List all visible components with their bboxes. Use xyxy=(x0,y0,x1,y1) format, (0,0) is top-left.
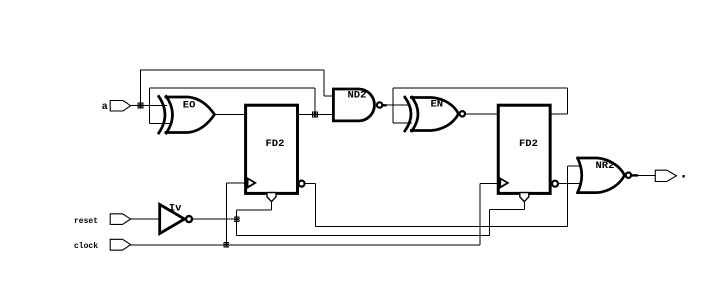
output pin xyxy=(655,170,676,181)
wire reset pin to Iv xyxy=(131,218,159,220)
wire RD1 riser xyxy=(271,201,273,210)
label Iv xyxy=(169,203,182,215)
flip-flop U2 FD2 box xyxy=(498,105,550,193)
svg-text:EN: EN xyxy=(431,98,444,110)
node reset junction xyxy=(234,216,240,222)
wire CP1 stub xyxy=(226,182,246,184)
wire drop rail to Q2 xyxy=(567,88,569,114)
svg-text:EO: EO xyxy=(183,99,196,111)
node a junction xyxy=(138,103,144,109)
wire QN2 to NOR lower input xyxy=(558,183,580,185)
svg-text:clock: clock xyxy=(74,242,98,251)
wire QN1 cross to NOR xyxy=(316,226,568,228)
svg-text:reset: reset xyxy=(74,217,98,226)
label ND2 xyxy=(348,90,367,102)
U1 QN bubble xyxy=(299,181,305,187)
svg-text:Iv: Iv xyxy=(169,203,182,215)
flip-flop U1 FD2 box xyxy=(246,105,298,193)
label FD2 (U1) xyxy=(266,138,285,150)
wire reset node vertical xyxy=(236,210,238,235)
svg-text:NR2: NR2 xyxy=(596,160,615,172)
svg-text:ND2: ND2 xyxy=(348,90,367,102)
wire RD2 riser xyxy=(489,210,491,236)
output net dot label xyxy=(683,175,685,178)
xnor gate EN body xyxy=(404,96,459,132)
nor gate NR2 body xyxy=(577,157,625,194)
wire EN output to FD2 D xyxy=(466,113,499,115)
wire clock rail xyxy=(131,244,480,246)
wire Q1 to ND2 lower input xyxy=(298,114,335,116)
ND2 output stub xyxy=(383,104,387,106)
wire drop to XOR lower input xyxy=(149,88,151,124)
wire reset rail to FD2b xyxy=(237,235,490,237)
wire Q2 stub xyxy=(550,113,567,115)
U2 clock chevron xyxy=(500,178,508,187)
U2 RD wedge xyxy=(520,193,529,202)
wire CP1 riser xyxy=(225,183,227,245)
node clock junction xyxy=(224,242,230,248)
wire EN feedback drop xyxy=(392,88,394,123)
input pin reset xyxy=(110,214,130,225)
wire QN1 stub xyxy=(305,183,316,185)
wire a pin to XOR input xyxy=(131,105,167,107)
wire RD1 horizontal xyxy=(237,209,272,211)
wire XOR lower input stub xyxy=(150,123,171,125)
EN output bubble xyxy=(460,111,465,116)
label clock xyxy=(74,242,98,251)
U1 clock chevron xyxy=(248,178,256,187)
wire drop to ND2 top input xyxy=(323,70,325,96)
wire drop rail to Q1 node xyxy=(314,88,316,115)
U1 RD wedge xyxy=(267,193,276,202)
wire ND2 output to EN input xyxy=(383,104,410,106)
nand gate ND2 body xyxy=(333,89,374,121)
wire EN lower input stub xyxy=(393,122,412,124)
Iv output bubble xyxy=(186,216,192,222)
node Q1 junction xyxy=(312,112,318,118)
inverter Iv body xyxy=(160,205,185,234)
label FD2 (U2) xyxy=(519,138,538,150)
ND2 output bubble xyxy=(377,102,382,107)
wire NOR top input stub xyxy=(568,165,581,167)
U2 QN bubble xyxy=(552,181,558,187)
wire XOR output to FD2 D xyxy=(214,114,246,116)
wire feedback rail Q2 to EN xyxy=(393,87,568,89)
input pin a xyxy=(110,101,130,112)
wire Iv output to node xyxy=(193,218,237,220)
wire NOR output to out pin xyxy=(632,175,656,177)
xor gate EO body xyxy=(158,95,215,134)
wire top rail a to ND2 xyxy=(140,69,324,71)
input pin clock xyxy=(110,239,130,250)
wire node a riser to top rail xyxy=(140,70,142,106)
wire feedback rail Q1 to XOR xyxy=(150,87,316,89)
wire RD2 horizontal xyxy=(490,209,525,211)
wire CP2 riser xyxy=(479,184,481,245)
label EO xyxy=(183,99,196,111)
wire RD2 stub xyxy=(523,201,525,210)
label NR2 xyxy=(596,160,615,172)
label EN xyxy=(431,98,444,110)
wire NOR riser xyxy=(567,166,569,227)
label reset xyxy=(74,217,98,226)
wire ND2 top input stub xyxy=(324,95,334,97)
NR2 output bubble xyxy=(626,173,631,178)
label a xyxy=(102,102,108,113)
svg-text:FD2: FD2 xyxy=(266,138,285,150)
svg-text:FD2: FD2 xyxy=(519,138,538,150)
NR2 output stub xyxy=(631,174,638,176)
wire QN1 drop xyxy=(315,184,317,227)
svg-text:a: a xyxy=(102,102,108,113)
wire CP2 stub xyxy=(480,183,498,185)
